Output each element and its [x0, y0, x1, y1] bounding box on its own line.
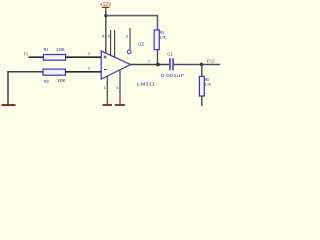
wire +12V rail to R4 [106, 16, 158, 30]
svg-text:6: 6 [126, 34, 128, 39]
svg-text:3: 3 [88, 65, 90, 70]
wire C1 to P2 edge [174, 64, 220, 66]
svg-text:10K: 10K [57, 78, 66, 83]
svg-text:2: 2 [88, 51, 90, 56]
junction P2 [200, 63, 203, 66]
svg-text:P2: P2 [206, 58, 215, 63]
resistor R1 [44, 47, 66, 60]
resistor R4 [154, 30, 166, 50]
svg-text:4.7K: 4.7K [204, 82, 211, 87]
resistor R5 [199, 65, 211, 107]
pin numbers top: 8 5 6 [102, 34, 128, 39]
junction output/R4 [156, 63, 160, 67]
wire P1 to R1 [29, 56, 44, 58]
op-amp U2 triangle [101, 41, 155, 87]
svg-text:C1: C1 [167, 51, 173, 56]
pin 4 to ground [119, 70, 121, 104]
ground bar pin1 [102, 104, 112, 106]
strobe stub with bubble [127, 28, 131, 54]
wire R1 to pin 2 [66, 56, 102, 58]
power +12V [100, 2, 112, 12]
ground bar left [2, 104, 16, 106]
svg-text:U2: U2 [138, 41, 144, 47]
svg-text:5: 5 [108, 34, 110, 39]
junction at +12V rail [104, 14, 107, 17]
wire gnd corner to R3 [8, 72, 43, 105]
svg-text:7: 7 [148, 59, 150, 64]
svg-text:1: 1 [104, 85, 106, 90]
output wire pin 7 [131, 64, 170, 66]
pin 6 stub top [114, 30, 116, 57]
ground bar pin4 [115, 104, 125, 106]
svg-text:R1: R1 [44, 47, 49, 52]
svg-text:P1: P1 [24, 52, 29, 57]
svg-text:4.7K: 4.7K [159, 35, 166, 40]
wire R3 to pin 3 [65, 71, 101, 73]
svg-text:R3: R3 [44, 79, 49, 84]
svg-text:0.001uF: 0.001uF [161, 73, 185, 78]
wire pin8 drop from +12V to op-amp [105, 11, 107, 53]
capacitor C1 [161, 51, 185, 77]
svg-text:8: 8 [102, 34, 104, 39]
wire R4 bottom to output node [157, 50, 159, 65]
resistor R3 [43, 69, 66, 84]
svg-text:LM311: LM311 [137, 81, 155, 87]
svg-text:10K: 10K [56, 47, 65, 52]
pin 5 stub top [110, 30, 112, 55]
pin 1 to ground [106, 76, 108, 104]
